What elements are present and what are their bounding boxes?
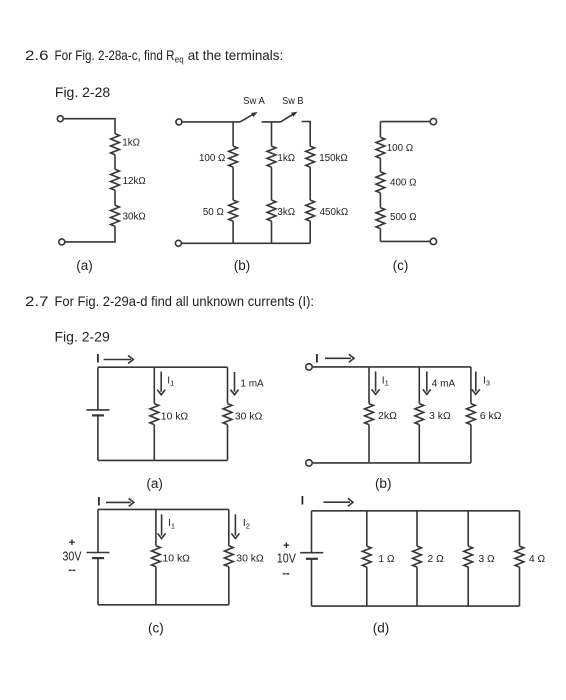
current I1 arrow (b) xyxy=(375,372,377,392)
svg-text:450kΩ: 450kΩ xyxy=(320,207,349,218)
svg-text:I1: I1 xyxy=(168,518,175,530)
svg-text:3 Ω: 3 Ω xyxy=(479,554,495,565)
current I arrow (a) xyxy=(104,359,131,361)
wire bottom (a) xyxy=(98,459,228,461)
branch 2kΩ wire top xyxy=(368,367,370,404)
right wire bottom (c) xyxy=(228,567,230,605)
current 1 mA arrow xyxy=(234,372,236,392)
resistor 2kΩ xyxy=(365,404,374,425)
branch 3kΩ wire bottom xyxy=(418,425,420,463)
terminal top-right (c) xyxy=(430,118,436,124)
wire top (d) xyxy=(312,510,520,512)
svg-text:3 kΩ: 3 kΩ xyxy=(429,411,451,422)
right wire top (a) xyxy=(227,367,229,403)
svg-text:30 kΩ: 30 kΩ xyxy=(235,411,263,422)
wire between 12k and 30k xyxy=(114,190,116,205)
middle branch wire bottom (a) xyxy=(153,425,155,461)
right wire top (d) xyxy=(519,511,521,546)
svg-text:1 Ω: 1 Ω xyxy=(378,554,394,565)
svg-text:500 Ω: 500 Ω xyxy=(390,212,416,223)
left wire top to battery (d) xyxy=(311,511,313,553)
branch 2 wire middle xyxy=(271,167,273,200)
svg-text:I1: I1 xyxy=(167,375,174,387)
left wire bottom (c) xyxy=(379,229,381,242)
left wire top (c) xyxy=(379,122,381,138)
right wire bottom (d) xyxy=(519,567,521,606)
branch 1 wire middle xyxy=(232,167,234,200)
battery 10V short plate xyxy=(306,558,318,560)
wire bottom (b) xyxy=(181,242,310,244)
wire bottom (d) xyxy=(312,605,520,607)
left wire top to battery xyxy=(97,367,99,410)
resistor 400 Ω xyxy=(376,172,385,193)
svg-text:--: -- xyxy=(282,568,290,580)
current I2 arrow xyxy=(234,514,236,535)
svg-text:I1: I1 xyxy=(382,375,389,387)
branch 1Ω wire top xyxy=(366,511,368,546)
svg-text:1kΩ: 1kΩ xyxy=(277,153,295,164)
right wire bottom (a) xyxy=(227,425,229,461)
svg-text:Sw A: Sw A xyxy=(243,96,265,107)
svg-text:30V: 30V xyxy=(63,550,83,564)
wire top (b) xyxy=(182,121,240,123)
battery 30V long plate xyxy=(87,552,110,554)
wire between 1k and 12k xyxy=(114,155,116,170)
wire between 400 and 500 xyxy=(379,193,381,208)
branch 1 wire bottom xyxy=(232,221,234,243)
branch 2Ω wire top xyxy=(416,511,418,546)
terminal top-left (a) xyxy=(57,116,63,122)
svg-text:(b): (b) xyxy=(375,476,392,491)
battery 10V long plate xyxy=(300,552,323,554)
current I1 arrow (a) xyxy=(160,372,162,392)
svg-text:10V: 10V xyxy=(277,552,297,566)
terminal bottom-left (a) xyxy=(59,239,65,245)
middle branch wire top (a) xyxy=(153,367,155,403)
resistor 1kΩ (b) xyxy=(267,146,276,167)
resistor 150kΩ xyxy=(306,146,315,167)
branch 2 wire bottom xyxy=(271,221,273,243)
svg-text:--: -- xyxy=(68,564,76,576)
svg-text:6 kΩ: 6 kΩ xyxy=(480,411,502,422)
branch 6kΩ wire bottom xyxy=(470,425,472,463)
resistor 30 kΩ (a) xyxy=(223,404,232,425)
svg-text:1kΩ: 1kΩ xyxy=(122,138,140,149)
resistor 100 Ω (c) xyxy=(376,137,385,158)
resistor 6 kΩ xyxy=(467,404,476,425)
svg-text:Fig. 2-29: Fig. 2-29 xyxy=(55,329,110,345)
svg-text:eq: eq xyxy=(175,55,184,65)
terminal top (b) xyxy=(306,364,312,370)
svg-text:For Fig. 2-29a-d find all unkn: For Fig. 2-29a-d find all unknown curren… xyxy=(55,293,315,309)
svg-text:(a): (a) xyxy=(76,258,93,273)
svg-text:2.6: 2.6 xyxy=(25,47,49,63)
svg-text:10 kΩ: 10 kΩ xyxy=(161,411,189,422)
svg-text:2kΩ: 2kΩ xyxy=(378,411,397,422)
svg-text:I: I xyxy=(97,495,100,509)
svg-text:(c): (c) xyxy=(393,258,409,273)
resistor 3kΩ xyxy=(267,200,276,221)
resistor 10 kΩ (c) xyxy=(152,546,161,567)
svg-text:100 Ω: 100 Ω xyxy=(199,153,225,164)
svg-text:(a): (a) xyxy=(146,476,163,491)
branch 1 wire top xyxy=(232,122,234,146)
left wire below battery xyxy=(97,415,99,460)
branch 3kΩ wire top xyxy=(418,367,420,404)
resistor 30 kΩ (c) xyxy=(224,546,233,567)
svg-text:I2: I2 xyxy=(243,518,250,530)
svg-text:Fig. 2-28: Fig. 2-28 xyxy=(55,84,110,100)
terminal bottom (b) xyxy=(306,460,312,466)
svg-text:30kΩ: 30kΩ xyxy=(123,212,146,223)
resistor 1kΩ xyxy=(111,134,120,155)
svg-text:at the terminals:: at the terminals: xyxy=(188,47,284,63)
left wire below battery (d) xyxy=(311,559,313,606)
svg-text:2 Ω: 2 Ω xyxy=(428,554,444,565)
battery V1 long plate xyxy=(86,409,109,411)
battery V1 short plate xyxy=(92,414,104,416)
branch 3 wire bottom xyxy=(309,221,311,243)
middle branch wire top (c) xyxy=(155,509,157,545)
wire between 100 and 400 xyxy=(379,158,381,172)
switch Sw B blade xyxy=(281,114,294,122)
svg-text:4 mA: 4 mA xyxy=(432,379,456,390)
resistor 4 Ω xyxy=(515,546,524,567)
wire between switches xyxy=(262,121,281,123)
svg-text:I: I xyxy=(315,352,318,366)
resistor 10 kΩ (a) xyxy=(150,404,159,425)
resistor 100Ω (b) xyxy=(229,146,238,167)
wire top (c) xyxy=(380,121,430,123)
svg-text:I: I xyxy=(301,494,304,508)
svg-text:Sw B: Sw B xyxy=(282,96,304,107)
svg-text:400 Ω: 400 Ω xyxy=(390,178,416,189)
terminal bottom-right (c) xyxy=(430,238,436,244)
switch Sw A blade xyxy=(240,114,254,122)
wire top (b) xyxy=(312,366,471,368)
current I arrow (c) xyxy=(106,501,131,503)
wire bottom (c29) xyxy=(98,604,229,606)
battery 30V short plate xyxy=(92,557,104,559)
current I arrow (b) xyxy=(325,357,351,359)
wire bottom (b) xyxy=(312,462,471,464)
svg-text:10 kΩ: 10 kΩ xyxy=(163,554,191,565)
branch 2kΩ wire bottom xyxy=(368,425,370,463)
current I arrow (d) xyxy=(323,501,350,503)
branch 1Ω wire bottom xyxy=(366,567,368,606)
svg-text:12kΩ: 12kΩ xyxy=(123,176,146,187)
svg-text:100 Ω: 100 Ω xyxy=(387,143,413,154)
svg-text:2.7: 2.7 xyxy=(25,293,49,309)
svg-text:(d): (d) xyxy=(373,621,390,636)
resistor 3 kΩ (b29) xyxy=(415,404,424,425)
wire corner to branch 3 xyxy=(302,122,311,147)
resistor 450kΩ xyxy=(306,200,315,221)
svg-text:1 mA: 1 mA xyxy=(240,378,264,389)
wire top (c29) xyxy=(98,508,229,510)
terminal top-left (b) xyxy=(176,119,182,125)
wire bottom (a) xyxy=(65,226,115,242)
left wire top to battery (c) xyxy=(97,509,99,552)
wire bottom (c) xyxy=(380,240,430,242)
svg-text:For Fig. 2-28a-c, find R: For Fig. 2-28a-c, find R xyxy=(55,47,175,63)
resistor 2 Ω xyxy=(413,546,422,567)
resistor 1 Ω xyxy=(362,546,371,567)
svg-text:150kΩ: 150kΩ xyxy=(319,153,348,164)
branch 3Ω wire top xyxy=(467,511,469,546)
current I1 arrow (c) xyxy=(161,514,163,535)
current 4 mA arrow xyxy=(426,372,428,392)
svg-text:(c): (c) xyxy=(148,621,164,636)
resistor 12kΩ xyxy=(111,169,120,190)
branch 2 wire top xyxy=(271,122,273,146)
svg-text:50 Ω: 50 Ω xyxy=(203,207,224,218)
branch 3Ω wire bottom xyxy=(467,567,469,606)
resistor 30kΩ xyxy=(111,205,120,226)
svg-text:+: + xyxy=(69,537,75,549)
wire top (a) xyxy=(98,366,228,368)
right wire top (c) xyxy=(228,509,230,545)
left wire below battery (c) xyxy=(97,558,99,605)
svg-text:30 kΩ: 30 kΩ xyxy=(236,554,264,565)
svg-text:4 Ω: 4 Ω xyxy=(529,554,545,565)
middle branch wire bottom (c) xyxy=(155,567,157,605)
svg-text:(b): (b) xyxy=(234,258,251,273)
branch 2Ω wire bottom xyxy=(416,567,418,606)
svg-text:I3: I3 xyxy=(483,375,490,387)
branch 3 wire middle xyxy=(309,167,311,200)
svg-text:I: I xyxy=(96,351,99,365)
terminal bottom-left (b) xyxy=(175,240,181,246)
resistor 500 Ω xyxy=(376,208,385,229)
branch 6kΩ wire top xyxy=(470,367,472,404)
svg-text:+: + xyxy=(283,540,289,552)
resistor 3 Ω xyxy=(464,546,473,567)
svg-text:3kΩ: 3kΩ xyxy=(277,207,295,218)
wire top (a) xyxy=(63,119,115,134)
current I3 arrow xyxy=(475,372,477,392)
resistor 50Ω xyxy=(229,200,238,221)
